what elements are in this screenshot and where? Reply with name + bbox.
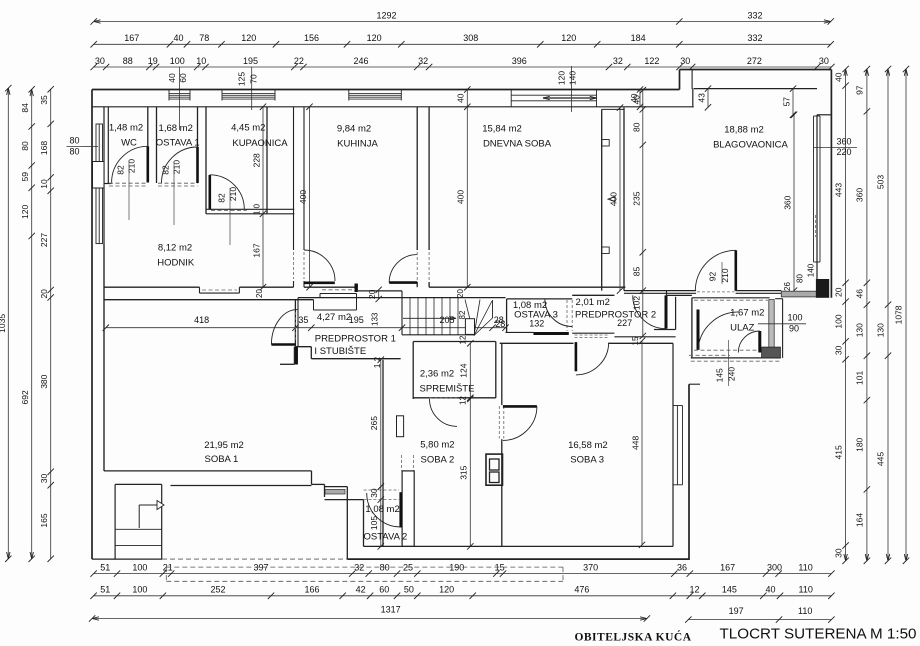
OSTAVA3 left wall xyxy=(506,299,508,333)
OSTAVA2 left wall band xyxy=(346,487,348,559)
left wall window 2 xyxy=(96,188,103,244)
svg-text:210: 210 xyxy=(172,160,182,174)
right dimension column A xyxy=(845,69,847,561)
svg-text:35: 35 xyxy=(298,315,308,325)
bottom dimension row 1 xyxy=(94,573,832,575)
svg-text:418: 418 xyxy=(194,315,209,325)
svg-text:4,45 m2: 4,45 m2 xyxy=(231,123,265,134)
svg-text:105: 105 xyxy=(369,516,379,530)
svg-text:42: 42 xyxy=(356,585,366,595)
radiator xyxy=(397,416,404,437)
hatch band xyxy=(325,489,345,494)
blagovaonica right step xyxy=(817,114,831,116)
svg-text:12: 12 xyxy=(689,585,699,595)
thick wall stub below predprostor1 door xyxy=(294,347,298,365)
PREDPROSTOR2 right door leaf xyxy=(665,295,668,328)
wall DNEVNA right xyxy=(601,109,603,290)
svg-text:315: 315 xyxy=(459,465,469,479)
svg-text:120: 120 xyxy=(20,205,30,219)
left dimension column 2 xyxy=(31,89,33,559)
svg-text:100: 100 xyxy=(833,314,843,328)
stairs xyxy=(401,291,403,335)
predprostor1 door leaf xyxy=(271,343,295,346)
svg-text:133: 133 xyxy=(371,312,380,326)
svg-text:145: 145 xyxy=(714,368,724,382)
KUPAONICA door leaf xyxy=(209,175,212,209)
svg-text:140: 140 xyxy=(807,263,816,277)
svg-text:195: 195 xyxy=(243,56,258,66)
svg-text:360: 360 xyxy=(836,137,851,147)
svg-text:82: 82 xyxy=(458,310,467,319)
SPREMISTE door arc xyxy=(430,399,458,427)
bottom outer edge dashed xyxy=(162,558,347,560)
svg-text:10: 10 xyxy=(39,179,49,189)
svg-text:2,36 m2: 2,36 m2 xyxy=(420,368,454,379)
OSTAVA3 top wall xyxy=(507,298,573,300)
svg-text:1 0: 1 0 xyxy=(253,203,262,215)
blagovaonica inner top face xyxy=(694,88,817,90)
dnevna wall stub marks xyxy=(602,140,610,147)
stair arrow xyxy=(138,505,140,528)
svg-text:360: 360 xyxy=(783,195,793,209)
svg-text:400: 400 xyxy=(298,190,308,204)
ULAZ entry door left leaf xyxy=(697,310,700,350)
outer wall: left inner face xyxy=(103,107,105,471)
dashed hidden edge above bottom dims xyxy=(166,566,563,568)
bottom dimension row 3 (1317) xyxy=(92,618,647,620)
svg-text:88: 88 xyxy=(123,56,133,66)
svg-text:82: 82 xyxy=(161,165,171,175)
svg-text:57: 57 xyxy=(782,97,792,107)
stair right side edge xyxy=(492,300,494,318)
left dimension column 3 xyxy=(50,89,52,559)
svg-text:90: 90 xyxy=(789,323,799,333)
svg-text:9,84 m2: 9,84 m2 xyxy=(337,124,371,135)
svg-text:210: 210 xyxy=(720,268,730,282)
ULAZ bottom dashes xyxy=(694,349,768,351)
svg-text:332: 332 xyxy=(747,10,762,20)
svg-text:OSTAVA 1: OSTAVA 1 xyxy=(156,138,200,149)
svg-text:OSTAVA 2: OSTAVA 2 xyxy=(363,531,407,542)
svg-text:WC: WC xyxy=(121,138,137,149)
svg-text:30: 30 xyxy=(833,345,843,355)
svg-text:80: 80 xyxy=(69,146,79,156)
bottom wall solid xyxy=(347,558,690,560)
svg-text:120: 120 xyxy=(241,33,256,43)
SOBA3 top door dashes xyxy=(575,337,609,339)
svg-text:80: 80 xyxy=(69,135,79,145)
blagovaonica bottom wall left part xyxy=(624,290,696,292)
svg-text:272: 272 xyxy=(747,56,762,66)
wall KUHINJA | DNEVNA xyxy=(416,107,418,250)
blagovaonica 360 vdim right xyxy=(793,115,795,291)
svg-text:100: 100 xyxy=(132,562,147,572)
svg-text:100: 100 xyxy=(787,312,802,322)
svg-text:400: 400 xyxy=(456,190,466,204)
svg-text:HODNIK: HODNIK xyxy=(157,258,195,269)
exterior stair box xyxy=(114,484,116,559)
PREDPROSTOR2 right door arc xyxy=(633,295,666,328)
svg-text:30: 30 xyxy=(833,548,843,558)
svg-text:KUPAONICA: KUPAONICA xyxy=(232,138,288,149)
OSTAVA2 door dashes xyxy=(364,489,400,491)
bottom wall inner face xyxy=(364,545,674,547)
SOBA3 right wall inner xyxy=(672,343,674,546)
svg-text:SOBA 1: SOBA 1 xyxy=(204,454,238,465)
svg-text:18,88 m2: 18,88 m2 xyxy=(724,124,764,135)
svg-text:I STUBIŠTE: I STUBIŠTE xyxy=(314,346,366,357)
svg-text:332: 332 xyxy=(747,33,762,43)
WC left wall xyxy=(107,107,109,184)
svg-text:78: 78 xyxy=(199,33,209,43)
svg-text:235: 235 xyxy=(631,191,641,205)
ULAZ lower-right step box xyxy=(762,347,781,358)
bottom outer edge left solid xyxy=(92,558,162,560)
svg-text:92: 92 xyxy=(708,272,718,282)
OSTAVA3 bottom wall xyxy=(506,331,534,333)
OSTAVA2 door arc xyxy=(367,493,401,527)
window marker 120/140 leader (dnevna window) xyxy=(571,66,573,112)
svg-text:164: 164 xyxy=(855,513,865,527)
ULAZ bottom wall xyxy=(691,357,781,359)
dashed connection under ulaz xyxy=(689,354,730,356)
right dimension column C xyxy=(887,69,889,561)
svg-text:80: 80 xyxy=(631,122,641,132)
svg-text:30: 30 xyxy=(369,488,379,498)
wall KUPAONICA right / shaft xyxy=(266,107,268,214)
265 vdim xyxy=(380,360,382,487)
svg-text:40: 40 xyxy=(167,73,177,83)
svg-text:110: 110 xyxy=(799,585,813,595)
svg-text:132: 132 xyxy=(529,319,544,329)
svg-text:82: 82 xyxy=(217,193,227,203)
svg-text:130: 130 xyxy=(876,323,886,337)
svg-text:8,12 m2: 8,12 m2 xyxy=(158,243,192,254)
svg-text:15,84 m2: 15,84 m2 xyxy=(482,124,522,135)
svg-text:80: 80 xyxy=(795,274,804,283)
kuhinja 400 vdim xyxy=(309,107,311,287)
svg-text:120: 120 xyxy=(556,71,566,85)
svg-text:KUHINJA: KUHINJA xyxy=(337,139,378,150)
svg-text:4,27 m2: 4,27 m2 xyxy=(317,312,351,323)
top dimension row 2 xyxy=(94,43,831,45)
svg-text:167: 167 xyxy=(252,243,262,257)
svg-text:370: 370 xyxy=(583,562,598,572)
kuhinja door leaf xyxy=(304,281,335,284)
svg-text:20: 20 xyxy=(456,289,465,298)
SOBA2 pillar xyxy=(402,471,414,547)
wall below blag door stub xyxy=(666,291,668,296)
left dimension column 1 (1035) xyxy=(7,88,9,559)
PREDPROSTOR2 bottom wall xyxy=(572,332,614,334)
SOBA3 left door leaf xyxy=(503,405,537,408)
window in top wall (kupaonica) xyxy=(222,92,275,94)
KUPAONICA door threshold dashed xyxy=(211,210,247,212)
stair direction arrow xyxy=(403,317,455,319)
svg-text:10: 10 xyxy=(196,56,206,66)
SOBA3 left wall xyxy=(501,343,503,405)
svg-text:360: 360 xyxy=(855,188,865,202)
svg-text:12: 12 xyxy=(458,396,467,405)
blagovaonica door opening dashes xyxy=(697,291,735,293)
bottom dimension row 2 xyxy=(94,595,832,597)
hodnik recess xyxy=(199,287,201,293)
svg-text:30: 30 xyxy=(39,474,49,484)
KUPAONICA bottom wall xyxy=(206,208,294,210)
WC door leaf xyxy=(147,146,150,182)
svg-text:227: 227 xyxy=(39,233,49,247)
svg-text:265: 265 xyxy=(369,416,379,430)
outer wall: step at x=679.5 xyxy=(679,70,681,90)
svg-text:443: 443 xyxy=(833,183,843,197)
SOBA2 315 vdim xyxy=(469,399,471,546)
OSTAVA1 door leaf xyxy=(196,147,199,183)
blagovaonica 400 vdim xyxy=(619,108,621,291)
black wall stub at x=356 xyxy=(355,284,358,293)
OSTAVA3 door arc xyxy=(545,299,572,326)
wall WC | OSTAVA1 xyxy=(147,107,149,183)
band lower line (soba1 top wall) xyxy=(104,299,314,301)
OSTAVA3 door dashes xyxy=(566,300,568,331)
kuhinja door arc xyxy=(304,250,335,281)
SOBA3 right window xyxy=(676,406,678,485)
window marker 195 (125/70) leader xyxy=(251,67,253,110)
svg-text:TLOCRT SUTERENA M 1:50: TLOCRT SUTERENA M 1:50 xyxy=(720,626,917,643)
blagovaonica door arc xyxy=(695,250,736,290)
svg-text:70: 70 xyxy=(249,74,259,84)
svg-text:156: 156 xyxy=(304,33,319,43)
ULAZ side window xyxy=(769,300,774,353)
svg-text:210: 210 xyxy=(228,187,238,201)
svg-text:166: 166 xyxy=(304,585,319,595)
svg-text:30: 30 xyxy=(819,56,829,66)
window in top wall (dnevna soba) with tick marker xyxy=(511,94,596,96)
svg-text:210: 210 xyxy=(127,159,137,173)
svg-text:60: 60 xyxy=(379,585,389,595)
svg-text:180: 180 xyxy=(855,437,865,451)
outer wall: top, main outer face xyxy=(92,89,680,91)
svg-text:30: 30 xyxy=(680,56,690,66)
vestibule wall x=675.6 xyxy=(675,297,677,330)
svg-text:40: 40 xyxy=(173,33,183,43)
SOBA3 448 vdim xyxy=(641,341,643,545)
svg-text:120: 120 xyxy=(367,33,382,43)
svg-text:OBITELJSKA KUĆA: OBITELJSKA KUĆA xyxy=(574,630,691,644)
dashed line above pillar xyxy=(814,215,816,237)
SOBA3 left door dashes xyxy=(498,406,500,439)
svg-text:28: 28 xyxy=(495,319,505,329)
svg-text:PREDPROSTOR 1: PREDPROSTOR 1 xyxy=(315,334,396,345)
HODNIK bottom wall upper line xyxy=(104,286,200,288)
svg-text:82: 82 xyxy=(116,165,126,175)
dnevna door opening dashes xyxy=(416,252,418,280)
svg-text:22: 22 xyxy=(294,56,304,66)
svg-text:20: 20 xyxy=(367,289,377,299)
SOBA1 bottom wall xyxy=(104,470,312,472)
svg-text:448: 448 xyxy=(631,436,641,450)
svg-text:12: 12 xyxy=(458,335,467,344)
predprostor1 bottom wall xyxy=(295,346,311,348)
svg-text:2,01 m2: 2,01 m2 xyxy=(576,297,610,308)
svg-text:503: 503 xyxy=(876,175,886,189)
wall OSTAVA1 | KUPAONICA xyxy=(197,107,199,183)
dim col 40/80/235/85/102 xyxy=(642,90,644,336)
ULAZ entry door left arc xyxy=(698,312,738,350)
svg-text:227: 227 xyxy=(617,318,632,328)
wall soba1 | predprostor1 xyxy=(294,300,296,347)
svg-text:445: 445 xyxy=(876,452,886,466)
svg-text:100: 100 xyxy=(132,585,147,595)
svg-text:300: 300 xyxy=(767,562,782,572)
svg-text:19: 19 xyxy=(148,56,158,66)
stair treads xyxy=(409,298,411,335)
blagovaonica left step lines xyxy=(692,89,694,108)
blagovaonica right inner face xyxy=(816,115,818,291)
svg-text:80: 80 xyxy=(20,141,30,151)
svg-text:168: 168 xyxy=(39,141,49,155)
svg-text:21,95 m2: 21,95 m2 xyxy=(204,440,244,451)
SPREMISTE box xyxy=(412,342,414,400)
svg-text:101: 101 xyxy=(855,371,865,385)
svg-text:476: 476 xyxy=(574,585,589,595)
svg-text:35: 35 xyxy=(39,95,49,105)
svg-text:110: 110 xyxy=(798,606,812,616)
svg-text:1317: 1317 xyxy=(381,605,401,615)
kuhinja door opening dashes xyxy=(293,252,295,279)
svg-text:400: 400 xyxy=(609,192,619,206)
svg-text:60: 60 xyxy=(178,73,188,83)
PREDPROSTOR2 top wall xyxy=(572,294,614,296)
ULAZ top wall line xyxy=(692,297,770,299)
window in top wall (kuhinja) xyxy=(349,92,402,94)
left wall window 1 xyxy=(96,124,103,162)
section triangle marker xyxy=(608,197,615,202)
ULAZ entry door right leaf xyxy=(758,331,761,353)
svg-text:84: 84 xyxy=(20,103,30,113)
blagovaonica-side 40 vdim top xyxy=(639,90,641,107)
SOBA3 left door arc xyxy=(503,406,537,440)
svg-text:692: 692 xyxy=(20,390,30,404)
OSTAVA2 door leaf xyxy=(399,492,402,527)
OSTAVA2 30/105 vdim xyxy=(380,487,382,547)
wall HODNIK | KUHINJA xyxy=(293,107,295,250)
vestibule bottom wall xyxy=(654,329,676,331)
wall segment y=290.9 xyxy=(358,290,402,292)
SOBA2 left wall xyxy=(382,360,384,547)
SOBA3 top door leaf xyxy=(575,342,578,371)
svg-text:SPREMIŠTE: SPREMIŠTE xyxy=(420,383,475,394)
svg-text:102: 102 xyxy=(631,296,641,310)
boiler xyxy=(486,454,503,485)
connecting wall band from soba1 step xyxy=(325,486,348,488)
ULAZ top dashes xyxy=(694,299,768,301)
svg-text:20: 20 xyxy=(39,289,49,299)
blagovaonica 43/57 vdims xyxy=(707,89,709,108)
svg-text:32: 32 xyxy=(418,56,428,66)
WC door arc xyxy=(112,146,148,182)
stair newel box xyxy=(465,319,474,335)
svg-text:BLAGOVAONICA: BLAGOVAONICA xyxy=(713,139,788,150)
svg-text:122: 122 xyxy=(644,56,659,66)
svg-text:140: 140 xyxy=(568,71,578,85)
svg-text:20: 20 xyxy=(833,287,843,297)
kupaonica-kuhinja vertical dim 228/167 xyxy=(262,107,264,287)
bottom dimension row 3 right (197/110) xyxy=(688,619,831,621)
svg-text:120: 120 xyxy=(439,585,454,595)
svg-text:1035: 1035 xyxy=(0,314,7,333)
svg-text:16,58 m2: 16,58 m2 xyxy=(568,440,608,451)
svg-text:415: 415 xyxy=(833,445,843,459)
svg-text:SOBA 2: SOBA 2 xyxy=(420,455,454,466)
svg-text:167: 167 xyxy=(124,33,139,43)
top dimension row 1 xyxy=(94,21,831,23)
dnevna door leaf xyxy=(389,281,417,284)
svg-text:5,80 m2: 5,80 m2 xyxy=(420,440,454,451)
svg-text:1,67 m2: 1,67 m2 xyxy=(730,308,764,319)
svg-text:130: 130 xyxy=(855,323,865,337)
ULAZ outer step xyxy=(782,299,784,358)
predprostor1 door opening dashes xyxy=(294,312,296,341)
left wall pier between windows xyxy=(93,162,105,189)
dnevna door arc xyxy=(389,255,417,283)
svg-text:ULAZ: ULAZ xyxy=(730,322,754,333)
svg-text:100: 100 xyxy=(170,56,185,66)
dim line 418-35-195-205-28 xyxy=(106,327,506,329)
svg-text:32: 32 xyxy=(613,56,623,66)
right dimension column B xyxy=(866,69,868,561)
ULAZ entry door right arc xyxy=(738,331,760,353)
top dimension row 3 xyxy=(94,66,832,68)
window in top wall (wc/ostava1) xyxy=(169,92,190,94)
svg-text:125: 125 xyxy=(237,72,247,86)
KUPAONICA door arc xyxy=(210,175,245,210)
right dimension column D (1078) xyxy=(905,69,907,561)
ULAZ left wall xyxy=(691,298,693,358)
SOBA3 right wall outer xyxy=(688,384,690,559)
svg-text:184: 184 xyxy=(631,33,646,43)
WC door threshold dashed xyxy=(109,182,148,184)
svg-text:40: 40 xyxy=(631,95,641,105)
landing box below recess xyxy=(313,300,315,310)
svg-text:40: 40 xyxy=(456,93,466,103)
wall right of door xyxy=(736,290,782,292)
svg-text:110: 110 xyxy=(798,562,812,572)
svg-text:15: 15 xyxy=(631,336,640,345)
SOBA1 bottom inner line xyxy=(171,485,312,487)
blagovaonica door leaf xyxy=(734,250,737,290)
svg-text:228: 228 xyxy=(252,153,262,167)
svg-text:51: 51 xyxy=(100,562,110,572)
svg-text:120: 120 xyxy=(561,33,576,43)
svg-text:1292: 1292 xyxy=(376,10,396,20)
svg-text:124: 124 xyxy=(459,363,469,377)
outer wall: top, inner face xyxy=(92,106,694,108)
predprostor1 door arc xyxy=(271,310,297,345)
band lower line right part xyxy=(298,297,506,299)
svg-text:46: 46 xyxy=(855,289,865,299)
svg-text:252: 252 xyxy=(210,585,225,595)
stair winder fan xyxy=(465,300,474,336)
svg-text:43: 43 xyxy=(697,93,707,103)
blagovaonica left wall line x=692 xyxy=(691,70,693,90)
svg-text:85: 85 xyxy=(631,267,641,277)
svg-text:246: 246 xyxy=(353,56,368,66)
svg-text:59: 59 xyxy=(20,172,30,182)
outer wall: blagovaonica right outer face xyxy=(830,70,832,298)
blagovaonica right window 360/220 xyxy=(813,116,815,262)
dashed wall gap soba2 xyxy=(401,455,403,471)
outer wall: blagovaonica top outer face xyxy=(680,69,832,71)
